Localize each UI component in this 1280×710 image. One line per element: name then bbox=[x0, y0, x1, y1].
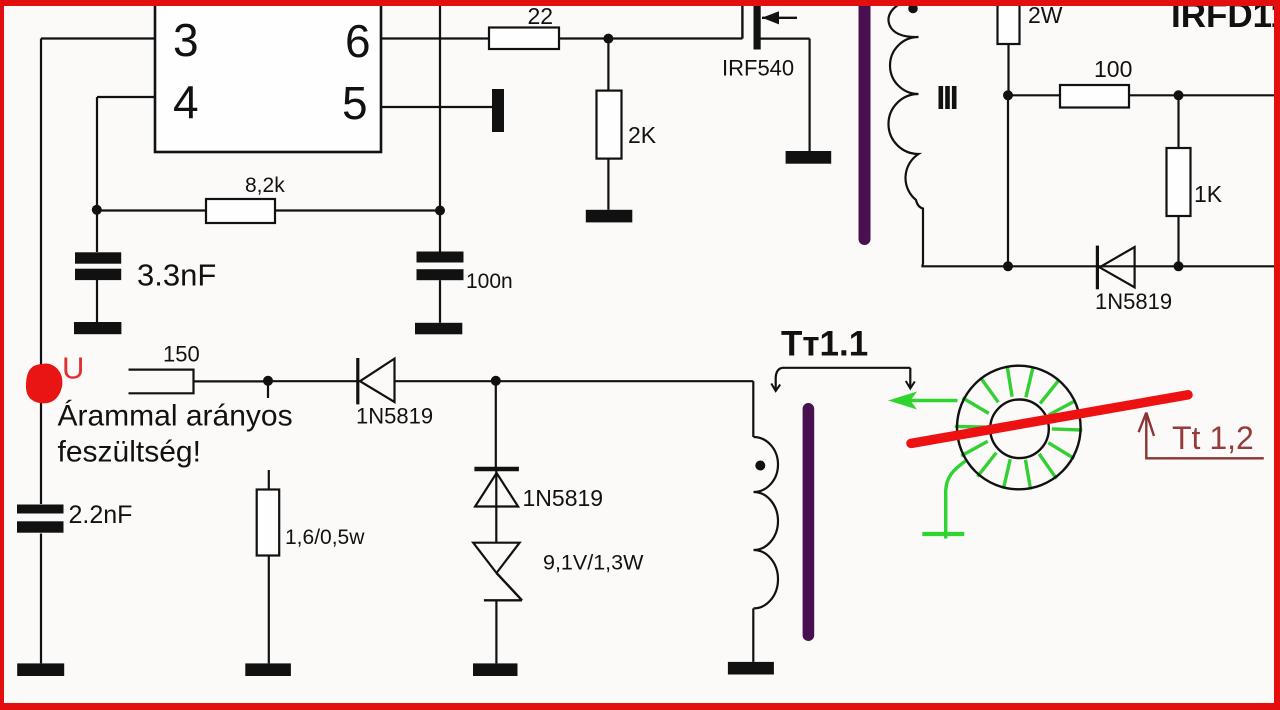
wire stub below junction bbox=[267, 381, 269, 398]
resistor 100 bbox=[1008, 85, 1179, 108]
wire junction to Tt1.1 winding bbox=[496, 380, 754, 382]
transformer core bar right bbox=[803, 403, 815, 641]
winding Tt1.1 (transformer secondary) bbox=[753, 381, 778, 662]
arrow for Tt 1,2 bbox=[1139, 413, 1264, 459]
capacitor 2.2nF bbox=[17, 505, 64, 664]
node junction 1K bottom bbox=[1174, 261, 1184, 271]
transformer core bar left (primary) bbox=[859, 0, 871, 245]
wire bottom rail right bbox=[923, 265, 1277, 267]
node junction 100/1K bbox=[1174, 90, 1184, 100]
svg-text:1N5819: 1N5819 bbox=[523, 485, 604, 511]
resistor 1,6/0,5w bbox=[257, 470, 280, 663]
diode 1N5819 right bbox=[1097, 246, 1134, 290]
svg-text:1N5819: 1N5819 bbox=[1095, 289, 1172, 314]
wire 2W junction down to rail bbox=[1007, 95, 1009, 266]
wire pin3 to left rail bbox=[41, 37, 155, 39]
resistor 8,2k bbox=[97, 199, 440, 223]
wire right of junction to edge bbox=[1179, 94, 1277, 96]
wire junction to diode bbox=[268, 380, 357, 382]
svg-text:feszültség!: feszültség! bbox=[58, 436, 201, 469]
svg-text:IRF540: IRF540 bbox=[722, 56, 794, 81]
ground under Tt1.1 bbox=[728, 662, 774, 675]
svg-text:100n: 100n bbox=[466, 270, 513, 293]
wire left rail vertical bbox=[40, 39, 42, 505]
text Arammal aranyos feszultseg bbox=[58, 400, 293, 469]
svg-text:4: 4 bbox=[173, 76, 199, 128]
diode 1N5819 vertical bbox=[474, 469, 519, 543]
diode 1N5819 middle bbox=[358, 358, 496, 404]
svg-text:9,1V/1,3W: 9,1V/1,3W bbox=[543, 551, 644, 575]
wire vertical at x440 bbox=[439, 6, 441, 252]
red line through toroid bbox=[911, 395, 1188, 444]
svg-text:1K: 1K bbox=[1194, 181, 1223, 207]
svg-text:1N5819: 1N5819 bbox=[356, 404, 433, 429]
phase dot winding III bbox=[908, 4, 918, 14]
svg-text:5: 5 bbox=[342, 77, 368, 129]
resistor 1K bbox=[1167, 95, 1191, 266]
transistor Q1 IRF540 bbox=[742, 2, 809, 151]
wire pin5 horizontal bbox=[381, 106, 492, 108]
green arrow wire bbox=[888, 392, 958, 410]
ground under 2K bbox=[586, 210, 633, 223]
capacitor 3.3nF bbox=[75, 252, 121, 322]
resistor 150 (open left side) bbox=[129, 370, 269, 394]
green ground wire from toroid bbox=[922, 461, 965, 539]
svg-text:Tt 1,2: Tt 1,2 bbox=[1172, 420, 1254, 456]
resistor 2K bbox=[597, 39, 622, 210]
phase dot Tt1.1 bbox=[755, 461, 765, 471]
ground under 1,6/0,5w bbox=[245, 663, 291, 676]
resistor 2W bbox=[998, 0, 1020, 95]
IC U1 box bbox=[155, 0, 381, 152]
svg-text:22: 22 bbox=[528, 3, 554, 29]
winding III (transformer primary) bbox=[889, 2, 923, 265]
toroid Tt1.2 inner circle bbox=[990, 400, 1049, 459]
svg-text:1,6/0,5w: 1,6/0,5w bbox=[285, 526, 365, 549]
node junction bottom rail bbox=[1003, 261, 1013, 271]
wire pin6 to resistor 22 bbox=[381, 37, 489, 39]
svg-text:2K: 2K bbox=[628, 122, 657, 148]
ground under 3.3nF bbox=[74, 322, 121, 334]
svg-text:3: 3 bbox=[173, 14, 199, 66]
toroid Tt1.2 outer circle bbox=[957, 366, 1081, 490]
svg-text:100: 100 bbox=[1094, 56, 1132, 82]
toroid Tt1.2 spokes bbox=[955, 367, 1083, 490]
pin5 termination bar bbox=[492, 89, 504, 132]
bracket under Tt1.1 bbox=[771, 368, 915, 391]
node junction diode/chain bbox=[491, 376, 501, 386]
wire chain down from junction bbox=[495, 381, 497, 467]
node junction 8,2k/100n bbox=[435, 206, 445, 216]
resistor 22 bbox=[489, 28, 742, 50]
label III bbox=[939, 86, 957, 109]
svg-text:Árammal arányos: Árammal arányos bbox=[58, 400, 293, 433]
svg-text:U: U bbox=[62, 351, 84, 386]
wire pin4 horizontal bbox=[97, 96, 155, 98]
node junction 22/2K/gate bbox=[603, 34, 613, 44]
ground under 100n bbox=[415, 323, 462, 335]
svg-text:3.3nF: 3.3nF bbox=[137, 258, 216, 293]
svg-text:150: 150 bbox=[163, 342, 200, 367]
wire pin4 down to node bbox=[96, 97, 98, 252]
node junction 2W/100 bbox=[1003, 90, 1013, 100]
ground under IRF540 source bbox=[786, 151, 832, 164]
svg-text:8,2k: 8,2k bbox=[245, 174, 285, 197]
svg-text:Tт1.1: Tт1.1 bbox=[781, 325, 868, 364]
node U (red) bbox=[26, 364, 62, 404]
ground under 2.2nF bbox=[17, 663, 64, 676]
svg-text:6: 6 bbox=[345, 15, 371, 67]
node junction pin4/8,2k bbox=[92, 205, 102, 215]
capacitor 100n bbox=[417, 252, 464, 323]
ground under zener bbox=[473, 663, 518, 676]
node junction 150/diode bbox=[263, 376, 273, 386]
svg-text:2.2nF: 2.2nF bbox=[69, 501, 133, 529]
zener diode 9,1V bbox=[473, 543, 522, 664]
